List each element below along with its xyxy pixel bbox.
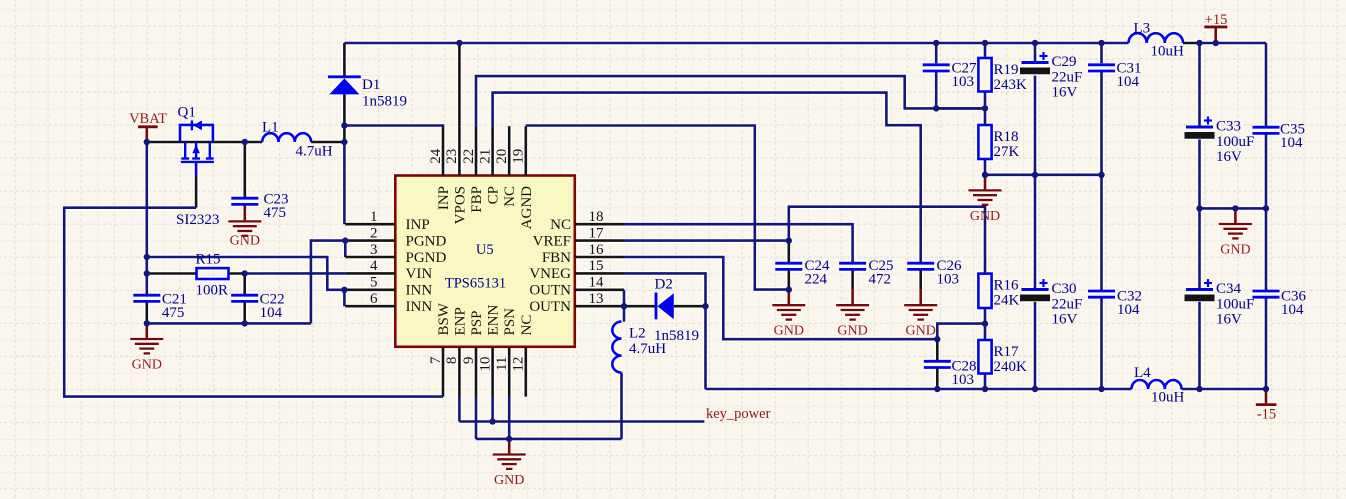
svg-text:SI2323: SI2323 [176, 212, 219, 228]
wire VNEG pin 15 [624, 273, 706, 306]
wire pin 9 PSP down [475, 397, 478, 439]
pin 4 (VIN) [345, 258, 432, 282]
wire FBN to divider mid [937, 324, 985, 340]
transistor Q1 (SI2323) [176, 105, 219, 229]
svg-text:14: 14 [589, 275, 605, 291]
svg-text:BSW: BSW [436, 302, 452, 335]
pin 7 (BSW) [428, 302, 452, 396]
resistor R18 (27K) [978, 125, 1019, 160]
svg-text:R19: R19 [994, 62, 1019, 78]
wire C36 bottom lead [1265, 298, 1268, 389]
wire C24 bottom lead [787, 270, 790, 290]
svg-text:104: 104 [260, 305, 283, 321]
svg-text:22uF: 22uF [1052, 69, 1083, 85]
pin 10 (ENN) [477, 305, 501, 397]
pin 5 (INN) [345, 275, 432, 299]
wire PGND pins tie [344, 241, 347, 257]
junction [144, 254, 150, 260]
pin 2 (PGND) [345, 225, 446, 249]
junction [1098, 386, 1104, 392]
pin 21 (CP) [477, 126, 501, 204]
junction [1196, 40, 1202, 46]
svg-text:16: 16 [589, 242, 605, 258]
wire C25 bottom lead [851, 270, 854, 290]
svg-text:C33: C33 [1216, 119, 1241, 135]
wire R19 top lead [984, 43, 987, 58]
wire R15 right lead [229, 272, 245, 275]
svg-text:GND: GND [1220, 242, 1250, 257]
svg-text:475: 475 [162, 305, 185, 321]
junction [1263, 205, 1269, 211]
wire right rail to C35 [1265, 43, 1268, 127]
pin 6 (INN) [345, 291, 432, 315]
svg-text:GND: GND [837, 324, 867, 339]
svg-text:104: 104 [1281, 302, 1304, 318]
wire -15 rail after L4 [1182, 388, 1267, 391]
wire L2 top lead [623, 306, 626, 321]
svg-text:PSP: PSP [469, 310, 485, 335]
power VBAT [129, 111, 167, 142]
wire INN net [147, 257, 345, 290]
svg-text:ENN: ENN [486, 305, 502, 336]
svg-text:104: 104 [1117, 302, 1140, 318]
junction [621, 303, 627, 309]
svg-text:104: 104 [1117, 74, 1140, 90]
wire R19-R18 link [984, 92, 987, 126]
svg-text:R16: R16 [994, 278, 1020, 294]
wire ground row [147, 322, 311, 325]
svg-text:17: 17 [589, 225, 605, 241]
capacitor C35 (104) [1253, 122, 1306, 152]
svg-text:OUTN: OUTN [529, 283, 571, 299]
wire C21 bottom lead [146, 303, 149, 324]
svg-text:INP: INP [406, 217, 430, 233]
svg-text:100uF: 100uF [1216, 134, 1254, 150]
svg-text:AGND: AGND [519, 186, 535, 229]
svg-text:22uF: 22uF [1052, 296, 1083, 312]
diode D2 (1n5819) [654, 277, 699, 345]
junction [242, 270, 248, 276]
wire INP to pin 24 [344, 124, 443, 127]
svg-text:FBP: FBP [469, 186, 485, 213]
wire VPOS pin 23 [458, 43, 461, 126]
pin 19 (AGND) [511, 126, 535, 229]
wire VREF to C24 [624, 239, 789, 242]
junction [982, 105, 988, 111]
capacitor C36 (104) [1253, 289, 1307, 319]
wire D1 cathode lead [343, 43, 346, 77]
svg-text:24: 24 [428, 148, 444, 164]
svg-text:GND: GND [230, 233, 260, 248]
junction [982, 172, 988, 178]
svg-text:PGND: PGND [406, 250, 447, 266]
svg-text:R17: R17 [994, 344, 1020, 360]
diode D1 (1n5819) [328, 77, 407, 110]
wire FBP net [476, 76, 985, 126]
svg-text:103: 103 [952, 372, 975, 388]
junction [242, 320, 248, 326]
capacitor C26 (103) [907, 258, 962, 288]
svg-text:-15: -15 [1257, 407, 1276, 423]
svg-text:3: 3 [370, 242, 378, 258]
svg-text:104: 104 [1280, 135, 1303, 151]
junction [982, 320, 988, 326]
pin 18 (NC) [550, 209, 624, 233]
capacitor C33 (100uF 16V) [1185, 117, 1255, 166]
pin 11 (PSN) [494, 308, 518, 397]
wire C29 bottom lead [1034, 76, 1037, 175]
wire Q1 gate lead [195, 177, 198, 208]
wire D1 anode lead [343, 95, 346, 143]
junction [786, 237, 792, 243]
pin 1 (INP) [345, 209, 429, 233]
junction [144, 270, 150, 276]
power +15 [1204, 12, 1227, 43]
pin 14 (OUTN) [529, 275, 624, 299]
wire mid GND link [1200, 207, 1267, 210]
svg-text:10uH: 10uH [1151, 44, 1185, 60]
wire PGND to ground row [311, 241, 345, 324]
wire C23 top lead [244, 142, 247, 198]
junction [934, 336, 940, 342]
wire GND column to C32 [1100, 175, 1103, 291]
junction [982, 386, 988, 392]
svg-text:C29: C29 [1052, 54, 1077, 70]
pin 16 (FBN) [542, 242, 624, 266]
svg-text:472: 472 [869, 272, 892, 288]
junction [341, 139, 347, 145]
svg-text:C34: C34 [1216, 281, 1242, 297]
svg-text:VNEG: VNEG [529, 266, 571, 282]
svg-text:18: 18 [589, 209, 604, 225]
wire C34 top lead [1198, 208, 1201, 289]
svg-text:1n5819: 1n5819 [362, 94, 407, 110]
svg-text:19: 19 [511, 149, 527, 164]
svg-text:8: 8 [444, 357, 460, 365]
wire C36 top lead [1265, 208, 1268, 291]
svg-text:16V: 16V [1052, 312, 1078, 328]
junction [1032, 172, 1038, 178]
svg-text:16V: 16V [1216, 149, 1242, 165]
svg-text:L3: L3 [1134, 21, 1151, 37]
svg-text:VREF: VREF [533, 233, 571, 249]
wire C29 top lead [1034, 43, 1037, 63]
svg-text:103: 103 [937, 272, 960, 288]
ground (C25) [836, 290, 869, 339]
junction [702, 303, 708, 309]
svg-text:GND: GND [132, 357, 162, 372]
inductor L1 (4.7uH) [262, 120, 333, 160]
capacitor C34 (100uF 16V) [1185, 279, 1255, 328]
pin 13 (OUTN) [529, 291, 624, 315]
pin 23 (VPOS) [444, 126, 468, 224]
junction [144, 139, 150, 145]
svg-text:22: 22 [461, 149, 477, 164]
wire CP to C26 [493, 93, 921, 264]
svg-text:11: 11 [494, 357, 510, 371]
ground (U5) [493, 439, 526, 488]
junction [242, 139, 248, 145]
svg-text:VBAT: VBAT [129, 111, 167, 127]
wire D2 anode lead [674, 305, 706, 308]
svg-text:224: 224 [805, 272, 828, 288]
svg-text:100uF: 100uF [1216, 296, 1254, 312]
svg-text:Q1: Q1 [178, 105, 196, 121]
ground (C33-C34) [1219, 208, 1252, 257]
inductor L4 (10uH) [1132, 365, 1185, 406]
svg-text:NC: NC [502, 186, 518, 207]
svg-text:12: 12 [511, 357, 527, 372]
wire R17 top lead [984, 324, 987, 340]
wire C26 bottom lead [919, 270, 922, 290]
junction [933, 105, 939, 111]
pin 8 (ENP) [444, 307, 468, 396]
wire R16 bottom lead [984, 308, 987, 324]
svg-text:FBN: FBN [542, 250, 571, 266]
capacitor C31 (104) [1088, 61, 1142, 91]
junction [786, 286, 792, 292]
svg-text:24K: 24K [994, 293, 1020, 309]
svg-text:ENP: ENP [452, 307, 468, 335]
junction [1196, 205, 1202, 211]
pin 24 (INP) [428, 126, 452, 210]
pin 9 (PSP) [461, 310, 485, 396]
wire C22 top lead [243, 274, 246, 296]
wire key_power net [459, 420, 704, 423]
resistor R17 (240K) [978, 340, 1027, 375]
svg-text:NC: NC [550, 217, 571, 233]
svg-text:OUTN: OUTN [529, 299, 571, 315]
wire GND row right [985, 174, 1102, 177]
svg-text:10: 10 [477, 357, 493, 372]
wire VREF to R16 [789, 207, 985, 274]
wire Q1 gate to pin 7 BSW [64, 208, 443, 397]
wire VBAT column [146, 142, 149, 295]
capacitor C27 (103) [923, 61, 977, 91]
wire D2 cathode lead [624, 305, 655, 308]
pin 22 (FBP) [461, 126, 485, 213]
wire pin 10 ENN down [491, 397, 494, 422]
wire Q1 gate stub [195, 163, 198, 177]
wire C33 top lead [1198, 43, 1201, 127]
junction [1263, 386, 1269, 392]
resistor R15 (100R) [196, 252, 229, 299]
svg-text:9: 9 [461, 357, 477, 365]
svg-text:PGND: PGND [406, 233, 447, 249]
wire NC pin18 to C25 [624, 224, 853, 263]
wire C31 bottom lead [1100, 70, 1103, 175]
svg-text:D2: D2 [655, 277, 673, 293]
svg-text:+15: +15 [1205, 12, 1228, 28]
svg-text:7: 7 [428, 356, 444, 364]
svg-text:PSN: PSN [502, 308, 518, 336]
wire VIN to pin 4 [245, 272, 346, 275]
junction [506, 436, 512, 442]
svg-text:TPS65131: TPS65131 [445, 276, 506, 292]
wire C31 top lead [1100, 43, 1103, 63]
wire INP column to pin 1 [343, 142, 346, 224]
junction [342, 237, 348, 243]
svg-text:16V: 16V [1216, 312, 1242, 328]
wire C28 bottom lead [936, 368, 939, 389]
wire C27 top lead [935, 43, 938, 63]
junction [1213, 40, 1219, 46]
svg-text:4.7uH: 4.7uH [296, 144, 333, 160]
wire AGND net [526, 126, 789, 290]
junction [1196, 386, 1202, 392]
svg-text:GND: GND [774, 324, 804, 339]
capacitor C32 (104) [1088, 289, 1142, 319]
svg-text:4: 4 [370, 258, 378, 274]
junction [341, 122, 347, 128]
wire VNEG rail [706, 388, 1132, 391]
wire PSP to L2 bottom [476, 438, 622, 441]
svg-text:VIN: VIN [406, 266, 433, 282]
wire FBN net [624, 257, 937, 339]
svg-text:13: 13 [589, 291, 604, 307]
svg-text:L4: L4 [1134, 365, 1151, 381]
wire C28 top lead [936, 339, 939, 361]
svg-text:240K: 240K [994, 359, 1028, 375]
svg-text:475: 475 [264, 205, 287, 221]
capacitor C21 (475) [133, 292, 187, 322]
svg-text:CP: CP [486, 186, 502, 204]
pin 3 (PGND) [345, 242, 446, 266]
wire C30 bottom lead [1034, 302, 1037, 389]
svg-text:U5: U5 [476, 242, 494, 258]
svg-text:GND: GND [494, 473, 524, 488]
wire C32 bottom lead [1100, 298, 1103, 389]
svg-text:23: 23 [444, 149, 460, 164]
junction [1098, 40, 1104, 46]
junction [933, 40, 939, 46]
svg-text:NC: NC [519, 315, 535, 336]
wire pin 8 ENP down [458, 397, 461, 422]
svg-text:4.7uH: 4.7uH [629, 341, 666, 357]
svg-text:27K: 27K [994, 144, 1020, 160]
junction [1098, 172, 1104, 178]
wire C23 bottom lead [244, 205, 247, 206]
junction [144, 320, 150, 326]
svg-text:R15: R15 [196, 252, 221, 268]
pin 20 (NC) [494, 126, 518, 207]
junction [489, 418, 495, 424]
svg-text:L2: L2 [629, 326, 646, 342]
inductor L2 (4.7uH) [612, 322, 666, 373]
junction [1032, 40, 1038, 46]
svg-text:103: 103 [952, 74, 975, 90]
ground (R18) [969, 175, 1002, 224]
svg-text:L1: L1 [262, 120, 279, 136]
capacitor C28 (103) [924, 359, 977, 389]
svg-text:INN: INN [406, 283, 433, 299]
wire L2 bottom lead [620, 373, 623, 439]
wire C34 bottom lead [1198, 302, 1201, 389]
capacitor C29 (22uF 16V) [1020, 52, 1082, 101]
wire C24 top lead [787, 241, 790, 264]
wire C33 bottom lead [1198, 139, 1201, 208]
wire L1 to switch node [311, 141, 344, 144]
capacitor C23 (475) [231, 192, 288, 222]
IC U5 (TPS65131) [395, 176, 575, 347]
wire L3 right lead [1183, 42, 1200, 45]
junction [341, 287, 347, 293]
svg-text:6: 6 [370, 291, 378, 307]
ground (C21) [130, 323, 163, 372]
ground (C23) [228, 206, 261, 249]
pin 12 (NC) [511, 315, 535, 397]
wire VBAT to L1 row [147, 141, 262, 144]
ground (C24) [772, 290, 805, 339]
wire +15 rail after L3 [1200, 42, 1267, 45]
wire R15 left lead [147, 272, 197, 275]
pin 17 (VREF) [533, 225, 624, 249]
wire INN pins tie [343, 290, 346, 306]
svg-text:21: 21 [477, 149, 493, 164]
svg-text:GND: GND [906, 324, 936, 339]
ground (C26) [904, 290, 937, 339]
wire VPOS rail [344, 42, 1128, 45]
svg-text:INP: INP [436, 186, 452, 210]
svg-text:100R: 100R [196, 283, 229, 299]
capacitor C24 (224) [775, 258, 830, 288]
svg-text:5: 5 [370, 275, 378, 291]
svg-text:2: 2 [370, 225, 378, 241]
junction [1232, 205, 1238, 211]
power -15 [1256, 389, 1277, 423]
svg-text:R18: R18 [994, 129, 1019, 145]
junction [456, 40, 462, 46]
svg-text:GND: GND [970, 209, 1000, 224]
wire OUTN pins tie [623, 290, 626, 306]
resistor R16 (24K) [978, 274, 1019, 309]
wire pin 11 PSN down [508, 397, 511, 439]
svg-text:VPOS: VPOS [452, 186, 468, 224]
svg-text:15: 15 [589, 258, 604, 274]
svg-text:10uH: 10uH [1151, 390, 1185, 406]
svg-text:C30: C30 [1052, 281, 1077, 297]
wire R18 bottom lead [984, 159, 987, 175]
wire C35 bottom lead [1265, 134, 1268, 209]
junction [982, 40, 988, 46]
svg-text:1: 1 [370, 209, 378, 225]
svg-text:D1: D1 [362, 77, 380, 93]
svg-text:INN: INN [406, 299, 433, 315]
resistor R19 (243K) [978, 58, 1027, 93]
wire C22 bottom lead [243, 303, 246, 324]
capacitor C25 (472) [839, 258, 893, 288]
pin 15 (VNEG) [529, 258, 624, 282]
capacitor C30 (22uF 16V) [1020, 279, 1082, 328]
wire C30 top lead [1034, 175, 1037, 290]
svg-text:key_power: key_power [706, 406, 771, 422]
junction [1032, 386, 1038, 392]
junction [934, 386, 940, 392]
svg-text:243K: 243K [994, 77, 1028, 93]
wire VNEG down to rail [704, 306, 707, 389]
wire C27 bottom lead [935, 70, 938, 109]
wire C27 to FBP node [936, 107, 985, 110]
svg-text:20: 20 [494, 149, 510, 164]
svg-text:16V: 16V [1052, 85, 1078, 101]
inductor L3 (10uH) [1129, 21, 1185, 60]
capacitor C22 (104) [231, 292, 284, 322]
wire R17 bottom lead [984, 374, 987, 390]
